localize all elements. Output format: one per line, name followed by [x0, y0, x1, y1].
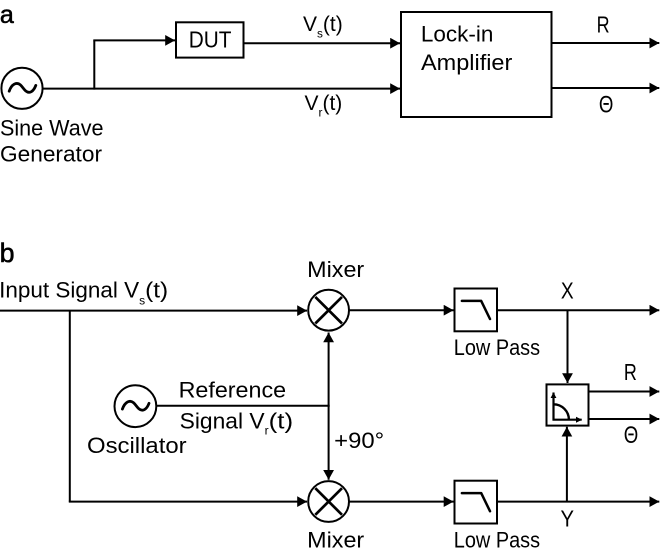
svg-text:Vr(t): Vr(t)	[305, 92, 343, 120]
wire: input signal to mixer 1	[0, 310, 307, 312]
wire: lock-in output theta	[552, 87, 660, 89]
svg-text:Lock-in: Lock-in	[421, 21, 494, 46]
wire: Y branch up to polar box	[566, 427, 568, 502]
wire: reference down to mixer 2 (+90)	[328, 405, 330, 480]
svg-text:Amplifier: Amplifier	[421, 50, 512, 75]
wire: lock-in output R	[552, 42, 660, 44]
svg-text:Y: Y	[561, 505, 575, 531]
svg-text:b: b	[0, 238, 15, 268]
svg-text:Θ: Θ	[624, 422, 639, 449]
svg-text:Signal Vr(t): Signal Vr(t)	[180, 409, 294, 438]
wire: low pass 1 output X	[497, 309, 659, 311]
svg-text:Mixer: Mixer	[307, 257, 364, 282]
wire: mixer 1 to low pass 1	[349, 309, 454, 311]
polar converter box U2	[547, 384, 589, 425]
svg-text:Vs(t): Vs(t)	[303, 13, 343, 41]
svg-text:a: a	[0, 1, 14, 29]
low pass filter F1	[455, 289, 498, 332]
svg-text:X: X	[561, 277, 574, 303]
svg-text:R: R	[597, 11, 610, 37]
wire: mixer 2 to low pass 2	[349, 501, 454, 503]
svg-text:Mixer: Mixer	[307, 528, 364, 553]
oscillator G2	[114, 385, 156, 427]
svg-text:R: R	[624, 359, 637, 385]
svg-text:Θ: Θ	[599, 92, 614, 119]
wire: branch to DUT	[93, 39, 175, 41]
svg-text:Input Signal Vs(t): Input Signal Vs(t)	[0, 278, 168, 308]
svg-text:Low Pass: Low Pass	[454, 528, 540, 553]
mixer M2	[308, 481, 349, 522]
DUT box	[176, 22, 244, 57]
wire: low pass 2 output Y	[497, 501, 659, 503]
wire: generator to lock-in (Vr)	[43, 88, 400, 90]
wire: input branch to mixer 2	[69, 501, 307, 503]
sine wave generator G1	[1, 68, 42, 109]
wire: X branch down to polar box	[567, 310, 569, 383]
svg-text:+90°: +90°	[334, 428, 384, 453]
wire: polar output theta	[589, 418, 660, 420]
svg-text:Generator: Generator	[0, 142, 102, 167]
svg-text:Sine Wave: Sine Wave	[0, 115, 104, 140]
lock-in amplifier box U1	[401, 12, 552, 117]
svg-text:Oscillator: Oscillator	[87, 433, 187, 458]
wire: branch vertical up	[93, 40, 95, 89]
mixer M1	[308, 290, 349, 331]
wire: reference up to mixer 1	[328, 333, 330, 407]
svg-text:Low Pass: Low Pass	[454, 335, 540, 360]
wire: polar output R	[589, 391, 660, 393]
wire: oscillator reference out	[156, 405, 329, 407]
svg-text:Reference: Reference	[179, 377, 287, 402]
low pass filter F2	[455, 481, 498, 524]
svg-text:DUT: DUT	[189, 27, 232, 53]
wire: input branch vertical	[69, 311, 71, 502]
wire: DUT to lock-in (Vs)	[244, 42, 401, 44]
